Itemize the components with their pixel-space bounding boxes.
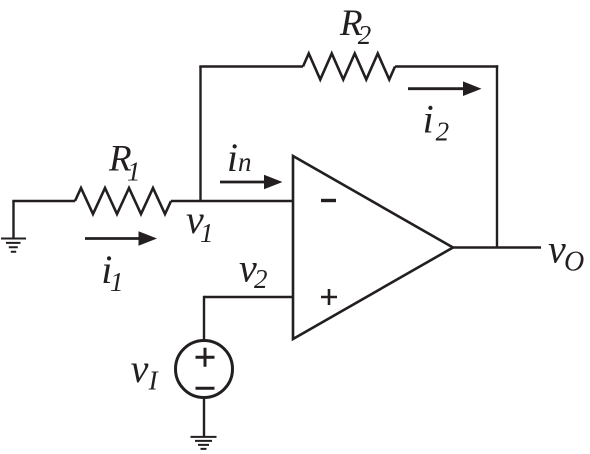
wire (top horizontal, right of R2) xyxy=(395,65,498,67)
resistor R1 xyxy=(75,188,171,214)
svg-text:2: 2 xyxy=(254,264,268,294)
ground (bottom, under source) xyxy=(191,437,217,449)
svg-text:I: I xyxy=(148,366,160,396)
label i2 xyxy=(423,96,450,146)
svg-text:1: 1 xyxy=(127,157,141,187)
wire (left horizontal from ground to R1) xyxy=(12,200,75,202)
label vI (input voltage) xyxy=(131,346,160,396)
voltage source vI xyxy=(176,341,233,398)
svg-text:i: i xyxy=(423,96,434,141)
resistor R2 xyxy=(303,54,395,80)
label R1 xyxy=(108,139,141,187)
wire (output from op-amp apex) xyxy=(453,246,541,248)
wire (source to bottom ground) xyxy=(203,398,205,437)
svg-text:O: O xyxy=(564,247,584,278)
op-amp non-inverting input marker xyxy=(321,289,337,305)
svg-text:2: 2 xyxy=(436,116,450,146)
label R2 xyxy=(339,3,371,50)
wire (right vertical, feedback to output) xyxy=(496,65,498,247)
wire (non-inverting input horizontal) xyxy=(204,296,293,298)
svg-text:i: i xyxy=(227,135,238,180)
wire (feedback vertical at node v1) xyxy=(199,67,201,203)
svg-text:1: 1 xyxy=(200,218,214,248)
label in xyxy=(227,135,252,180)
op-amp inverting input marker xyxy=(321,199,336,202)
label i1 xyxy=(101,247,123,297)
svg-text:n: n xyxy=(238,147,252,177)
svg-text:v: v xyxy=(131,346,149,391)
ground (left, at R1 input) xyxy=(1,201,26,252)
current arrow i2 (through R2 to output) xyxy=(408,81,482,96)
svg-text:2: 2 xyxy=(358,20,372,50)
op-amp U1 xyxy=(293,156,453,339)
wire (R1 to inverting input, node v1) xyxy=(171,200,293,202)
current arrow in (into inverting input) xyxy=(220,175,283,190)
label vO (output voltage) xyxy=(548,226,584,277)
node v2 label xyxy=(239,245,268,294)
wire (top horizontal, left of R2) xyxy=(199,65,303,67)
current arrow i1 xyxy=(85,231,157,246)
svg-text:1: 1 xyxy=(110,267,124,297)
wire (vertical from v2 down to source) xyxy=(203,296,205,340)
